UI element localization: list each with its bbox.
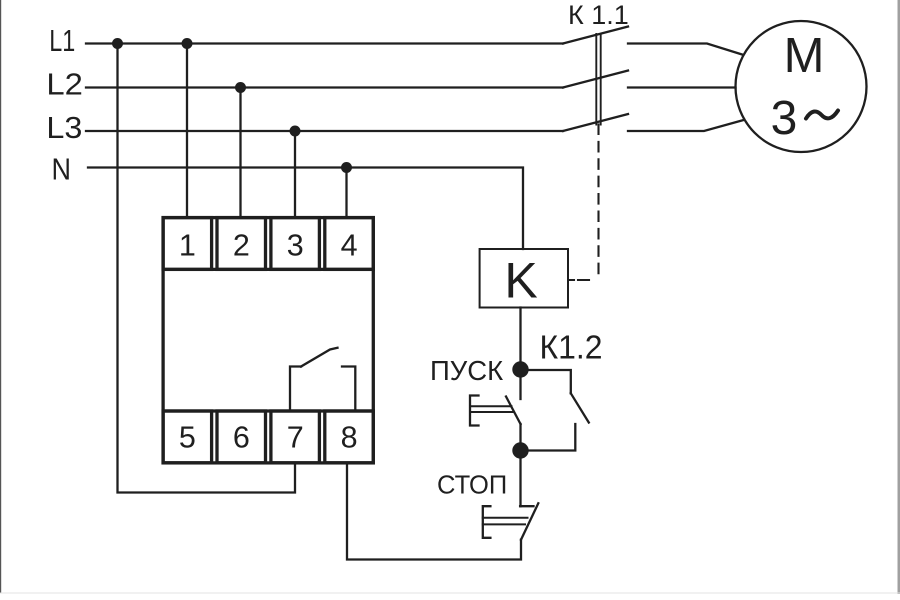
svg-text:2: 2 [233, 229, 250, 263]
svg-text:M: M [784, 29, 825, 83]
svg-text:8: 8 [341, 420, 358, 454]
svg-text:СТОП: СТОП [437, 472, 507, 500]
svg-text:L2: L2 [46, 68, 83, 102]
svg-text:5: 5 [179, 420, 196, 454]
svg-text:L3: L3 [46, 111, 82, 145]
svg-text:7: 7 [287, 420, 304, 454]
svg-text:3: 3 [771, 92, 798, 145]
svg-text:6: 6 [233, 420, 250, 454]
svg-text:K: K [504, 253, 537, 309]
svg-text:1: 1 [179, 229, 196, 263]
svg-text:ПУСК: ПУСК [430, 355, 503, 386]
svg-text:L1: L1 [49, 24, 75, 58]
svg-text:N: N [52, 153, 72, 187]
svg-text:К 1.1: К 1.1 [568, 0, 629, 30]
svg-text:К1.2: К1.2 [540, 329, 603, 366]
svg-text:4: 4 [341, 229, 358, 263]
svg-text:3: 3 [287, 229, 304, 263]
